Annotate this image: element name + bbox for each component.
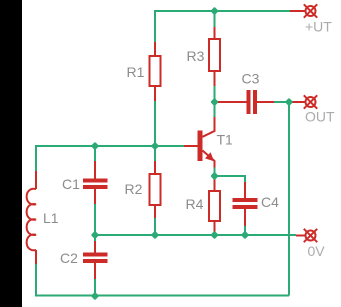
- capacitor C3: [249, 90, 256, 114]
- pin C4 bottom: [244, 209, 246, 226]
- capacitor C2: [83, 255, 108, 262]
- svg-text:0V: 0V: [308, 243, 326, 259]
- black side strip: [0, 0, 22, 307]
- node C4 gnd junction: [241, 231, 249, 239]
- wire top rail net +UT: [155, 10, 290, 12]
- wire C3 to OUT node: [274, 101, 289, 103]
- pin R3 top: [214, 27, 216, 40]
- pin R2 bottom: [154, 205, 156, 218]
- pin C1 bottom: [94, 189, 96, 204]
- capacitor C1: [83, 181, 108, 188]
- wire +UT terminal pin: [290, 10, 305, 12]
- inductor L1: [27, 189, 36, 251]
- pin T1 base: [184, 145, 198, 147]
- node R3 top junction: [210, 7, 218, 15]
- pin R4 top: [214, 176, 216, 192]
- transistor T1 collector lead: [203, 117, 215, 137]
- pin R3 bottom: [214, 71, 216, 86]
- svg-text:R4: R4: [186, 196, 204, 212]
- svg-text:R3: R3: [187, 48, 205, 64]
- transistor T1 emitter lead: [203, 151, 215, 168]
- wire mid rail (base net): [36, 145, 184, 147]
- wire R2 bottom: [154, 218, 156, 235]
- pin C2 top: [94, 241, 96, 253]
- node C2 bottom junction: [91, 292, 99, 300]
- terminal +UT: [304, 4, 317, 17]
- pin R4 bottom: [214, 221, 216, 233]
- pin R2 top: [154, 161, 156, 175]
- wire C1 bottom to gnd rail: [94, 204, 96, 235]
- svg-text:C4: C4: [261, 194, 279, 210]
- svg-text:T1: T1: [217, 132, 234, 148]
- node emitter junction: [210, 172, 218, 180]
- wire emitter to node: [214, 168, 216, 177]
- wire gnd rail: [95, 234, 296, 236]
- svg-text:+UT: +UT: [305, 19, 332, 35]
- pin R1 top: [154, 42, 156, 57]
- svg-text:C3: C3: [242, 71, 260, 87]
- node collector junction: [210, 98, 218, 106]
- node OUT junction: [285, 98, 293, 106]
- wire emitter node to C4: [215, 175, 246, 182]
- wire bottom rail: [35, 295, 289, 297]
- resistor R3: [209, 39, 220, 71]
- wire collector node to C3: [215, 101, 248, 103]
- svg-text:C2: C2: [60, 250, 78, 266]
- wire OUT vertical: [288, 102, 290, 296]
- wire C2 bottom: [94, 279, 96, 296]
- wire C1 top: [94, 146, 96, 161]
- resistor R2: [150, 174, 161, 205]
- resistor R1: [150, 56, 161, 86]
- wire left column top: [35, 145, 37, 171]
- wire R1 top column: [154, 10, 156, 42]
- resistor R4: [209, 191, 220, 221]
- pin C3 right: [257, 101, 274, 103]
- node R4 gnd junction: [210, 231, 218, 239]
- wire C2 top: [94, 235, 96, 241]
- transistor T1 base bar: [198, 131, 203, 162]
- svg-text:C1: C1: [62, 176, 80, 192]
- terminal 0V: [304, 229, 317, 242]
- pin C2 bottom: [94, 263, 96, 279]
- svg-text:R2: R2: [125, 181, 143, 197]
- node R2 gnd junction: [151, 231, 159, 239]
- node C1/C2 gnd junction: [91, 231, 99, 239]
- pin C4 top: [244, 182, 246, 199]
- pin L1 bottom: [35, 250, 37, 264]
- wire left column bottom: [35, 264, 37, 296]
- svg-text:R1: R1: [127, 64, 145, 80]
- svg-text:L1: L1: [43, 210, 59, 226]
- node R2 mid rail junction: [151, 142, 159, 150]
- wire R1 bottom to mid rail: [154, 101, 156, 146]
- wire C4 bottom: [244, 226, 246, 235]
- wire OUT terminal pin: [289, 101, 305, 103]
- wire 0V terminal pin: [296, 235, 305, 237]
- wire R2 top: [154, 146, 156, 161]
- wire R3 bottom to collector node: [214, 86, 216, 102]
- pin L1 top: [35, 171, 37, 189]
- wire R3 top: [214, 10, 216, 27]
- pin C1 top: [94, 161, 96, 179]
- wire collector stub: [214, 102, 216, 117]
- terminal OUT: [304, 95, 317, 108]
- pin R1 bottom: [154, 86, 156, 101]
- svg-text:OUT: OUT: [305, 109, 335, 125]
- capacitor C4: [233, 200, 258, 207]
- node C1 mid rail junction: [91, 142, 99, 150]
- transistor T1 emitter arrow: [205, 152, 214, 161]
